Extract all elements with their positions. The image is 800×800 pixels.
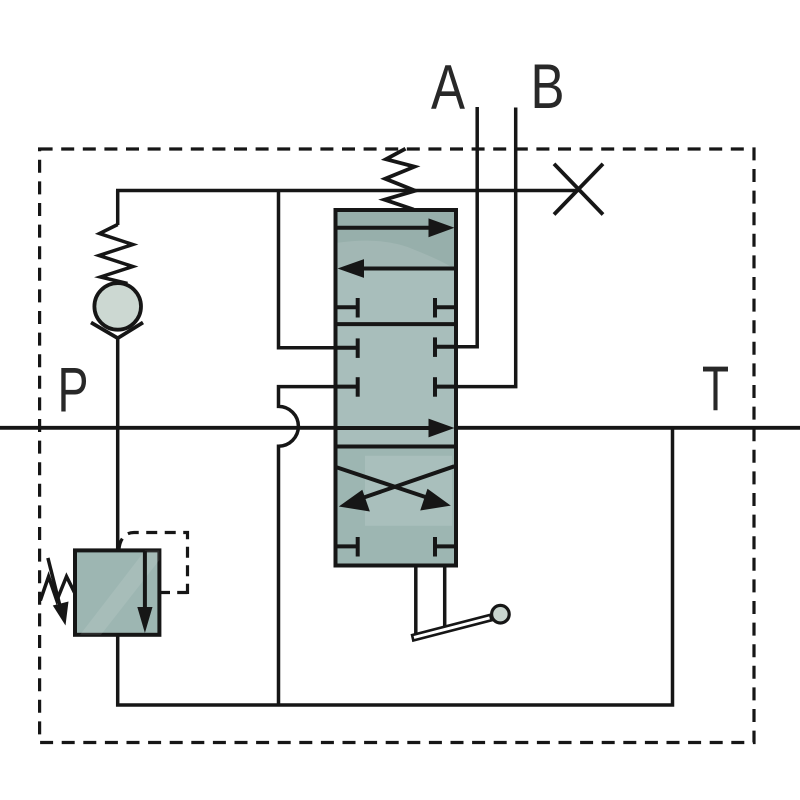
directional valve lower highlight xyxy=(365,456,452,526)
relief valve internal flow arrow xyxy=(143,551,147,612)
enclosure dashed border xyxy=(40,149,754,743)
arrow left in section 1 xyxy=(362,267,455,271)
wire: top pilot line from check valve to plug xyxy=(116,189,579,193)
svg-text:T: T xyxy=(702,354,729,424)
directional valve border xyxy=(336,210,457,566)
arrow right in section 1 xyxy=(337,226,434,230)
wire: P line from seat down to relief valve xyxy=(116,338,120,551)
directional valve top section darker band xyxy=(336,210,457,268)
blocked port pair 4 (section 3 bottom) xyxy=(336,537,457,557)
blocked port pair 1 (section 1 bottom) xyxy=(336,298,457,318)
svg-text:P: P xyxy=(58,356,89,426)
relief valve adjustment arrow xyxy=(48,558,61,608)
directional valve section boundary 1 xyxy=(336,322,457,326)
lever knob xyxy=(492,605,510,623)
svg-text:B: B xyxy=(531,52,565,122)
wire: port B line xyxy=(456,108,516,387)
wire: valve left port to tank with crossover hop xyxy=(279,387,336,705)
blocked port pair 2 (P/A level) xyxy=(336,337,457,358)
wire: relief valve outlet to tank line xyxy=(118,428,673,705)
wire: port A line xyxy=(456,107,477,347)
lever actuator links xyxy=(414,566,418,639)
wire: branch riser at x=278 from pilot line down to valve port xyxy=(279,191,336,348)
relief valve spring xyxy=(40,577,75,601)
pilot dashed line of relief valve xyxy=(119,533,188,595)
check valve ball xyxy=(94,283,141,330)
svg-text:A: A xyxy=(431,53,465,123)
relief valve RV1 body xyxy=(75,550,159,634)
relief valve body highlight xyxy=(80,550,159,634)
wire: check valve riser top xyxy=(116,191,120,226)
directional valve highlight wash xyxy=(336,241,457,445)
crossed arrows in section 3 xyxy=(336,467,428,498)
blocked port pair 3 (T/B level) xyxy=(336,377,457,397)
check valve seat xyxy=(91,323,143,339)
directional valve section boundary 2 xyxy=(336,445,457,449)
arrow right on P-T line inside valve xyxy=(336,426,435,430)
spring of check valve CV1 xyxy=(99,225,133,284)
plugged port symbol X xyxy=(554,164,603,215)
lever rod xyxy=(412,615,491,641)
directional valve DV1 body fill xyxy=(336,210,457,566)
pilot dashed connector to relief valve body xyxy=(160,591,188,594)
directional valve top centering spring xyxy=(385,149,416,210)
wire: main P-T horizontal line xyxy=(0,426,800,430)
